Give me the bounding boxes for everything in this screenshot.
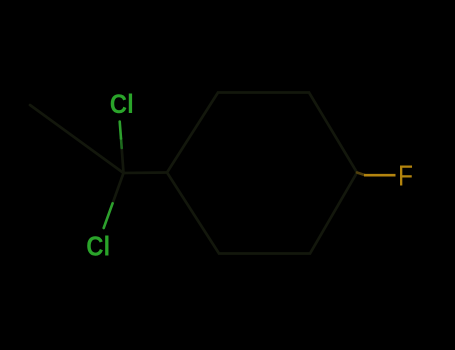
bond C-Cl(bottom) dark half — [113, 173, 124, 203]
benzene ring (single hexagon, very dark carbon bonds) — [167, 93, 357, 254]
svg-text:F: F — [398, 161, 413, 193]
bond C-CH3 (methyl stub up-left) — [30, 105, 124, 173]
svg-text:Cl: Cl — [110, 89, 134, 119]
bond C-Cl(bottom) green half — [104, 203, 113, 228]
bond C-Cl(top) green half — [120, 122, 121, 139]
bond C-Cl(top) dark half — [122, 148, 124, 173]
bond C1(ring)-C(quaternary) — [124, 171, 168, 174]
bond C4(ring)-F gold half — [364, 174, 396, 177]
svg-text:Cl: Cl — [86, 231, 110, 262]
bond C-Cl(top) fade segment — [120, 139, 123, 149]
bond C4(ring)-F dark half — [357, 173, 365, 176]
